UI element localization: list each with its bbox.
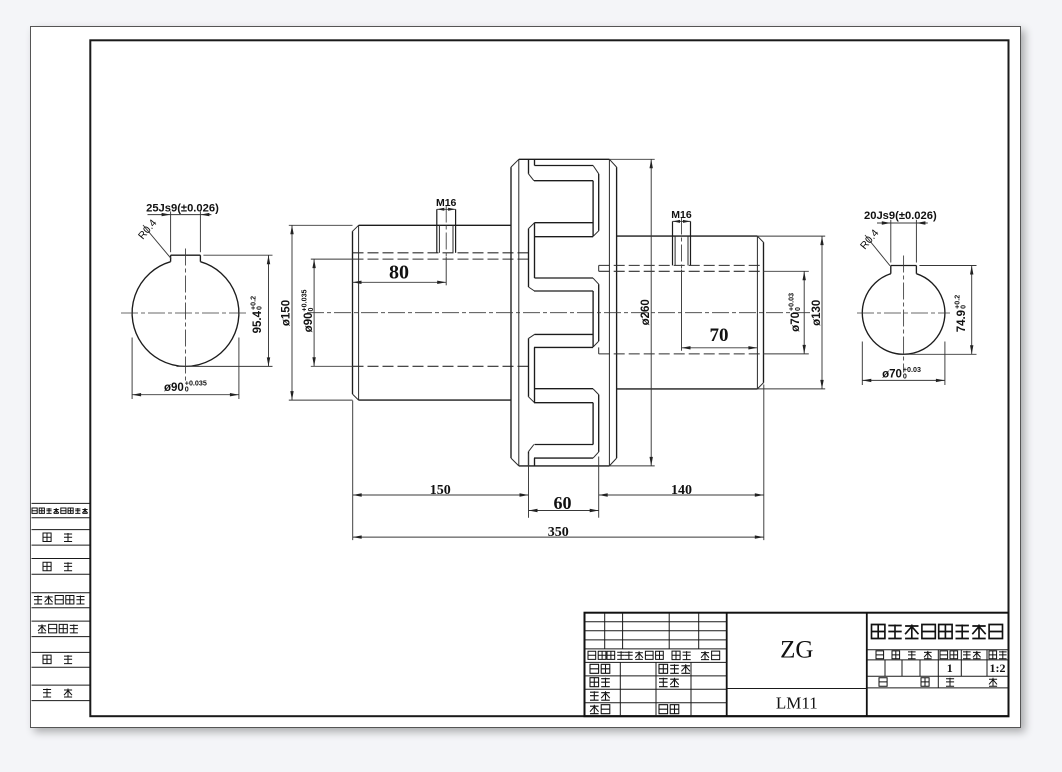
dim ø70 right view bbox=[861, 341, 863, 385]
dim 150 bbox=[353, 494, 529, 496]
title block left texts bbox=[588, 651, 596, 659]
svg-text:ø70: ø70 bbox=[882, 368, 902, 380]
dim ø130 bbox=[757, 235, 825, 237]
left margin registration column bbox=[32, 502, 91, 504]
left hub claw 2 (B4-B5) bbox=[529, 334, 535, 338]
svg-text:M16: M16 bbox=[436, 197, 457, 209]
dim 25Js9 bbox=[170, 211, 172, 252]
right view centerlines bbox=[857, 312, 950, 314]
svg-text:0: 0 bbox=[794, 307, 802, 311]
dim 20Js9 bbox=[890, 219, 892, 262]
svg-text:0: 0 bbox=[307, 307, 315, 311]
dim ø70 bore bbox=[763, 270, 809, 272]
svg-text:150: 150 bbox=[430, 482, 451, 497]
svg-text:ZG: ZG bbox=[780, 636, 813, 663]
bottom notch left bbox=[528, 451, 530, 465]
M16 tapped hole left bbox=[436, 209, 438, 253]
svg-text:0: 0 bbox=[255, 306, 263, 310]
dim ø90 left view bbox=[131, 337, 133, 399]
right hub claw 1 (B1-B2) bbox=[593, 165, 599, 173]
dim 350 bbox=[353, 536, 764, 538]
svg-text:95.4: 95.4 bbox=[252, 310, 264, 333]
dim 140 bbox=[599, 494, 764, 496]
right end view: circle with keyway bbox=[862, 273, 945, 354]
dim 80 bbox=[445, 257, 447, 285]
dim 95.4 left bbox=[203, 254, 272, 256]
svg-text:74.9: 74.9 bbox=[956, 309, 968, 331]
left hub cylinder ø150 bbox=[352, 231, 354, 394]
svg-text:ø90: ø90 bbox=[164, 382, 184, 394]
leader R0.4 left bbox=[143, 225, 171, 259]
coupling middle section outer silhouette ø260 bbox=[519, 158, 610, 160]
svg-text:ø90: ø90 bbox=[303, 312, 315, 332]
dim 60 bbox=[529, 509, 599, 511]
hidden end-face slivers right hub bbox=[598, 265, 600, 271]
claw band lines bbox=[535, 164, 594, 166]
right hub claw 3 (B5-B6) bbox=[593, 388, 599, 394]
svg-text:140: 140 bbox=[671, 482, 692, 497]
svg-text:0: 0 bbox=[960, 304, 968, 308]
drawing frame bbox=[90, 40, 1008, 716]
svg-text:M16: M16 bbox=[671, 209, 692, 221]
left keyway slot bbox=[171, 254, 201, 256]
title block bbox=[585, 612, 1009, 716]
left hub claw 1 (B2-B3) bbox=[529, 222, 535, 228]
dim ø260 bbox=[609, 158, 654, 160]
svg-text:1:2: 1:2 bbox=[990, 661, 1006, 675]
svg-text:R0.4: R0.4 bbox=[858, 227, 882, 252]
svg-text:350: 350 bbox=[548, 524, 569, 539]
title block left grid bbox=[585, 620, 727, 622]
svg-text:LM11: LM11 bbox=[776, 693, 818, 712]
left end view: circle with keyway bbox=[132, 261, 239, 366]
svg-text:25Js9(±0.026): 25Js9(±0.026) bbox=[146, 202, 219, 214]
dim ø150 bbox=[289, 224, 353, 226]
top notch left bbox=[528, 159, 530, 174]
svg-text:ø260: ø260 bbox=[640, 299, 652, 325]
right labels bbox=[876, 650, 884, 658]
right hub hidden bore/keyway lines bbox=[599, 264, 764, 266]
svg-text:0: 0 bbox=[903, 372, 907, 380]
svg-text:1: 1 bbox=[947, 661, 953, 675]
svg-text:80: 80 bbox=[389, 261, 409, 283]
main axis centerline bbox=[307, 311, 813, 313]
svg-text:0: 0 bbox=[185, 385, 189, 393]
svg-text:60: 60 bbox=[554, 492, 572, 512]
svg-text:70: 70 bbox=[710, 325, 729, 346]
right hub cylinder ø130 bbox=[617, 235, 758, 237]
left column labels (hanzi) bbox=[32, 508, 37, 513]
title block right bbox=[867, 648, 1009, 650]
dim 70 bbox=[681, 269, 683, 350]
svg-text:ø130: ø130 bbox=[811, 299, 823, 325]
svg-text:ø70: ø70 bbox=[790, 312, 802, 332]
dim ø90 bore bbox=[311, 258, 353, 260]
big title hanzi bbox=[872, 624, 885, 638]
dim 74.9 right bbox=[919, 264, 976, 266]
extension lines bottom bbox=[352, 400, 354, 540]
left hub hidden bore/keyway lines bbox=[353, 251, 529, 253]
right hub claw 2 (B3-B4) bbox=[593, 278, 599, 284]
M16 tapped hole right bbox=[672, 221, 674, 265]
svg-text:R0.4: R0.4 bbox=[136, 217, 160, 242]
right keyway slot bbox=[891, 264, 917, 266]
svg-text:ø150: ø150 bbox=[281, 299, 293, 325]
left view centerlines bbox=[121, 312, 249, 314]
svg-text:20Js9(±0.026): 20Js9(±0.026) bbox=[864, 210, 937, 222]
leader R0.4 right bbox=[865, 235, 890, 266]
